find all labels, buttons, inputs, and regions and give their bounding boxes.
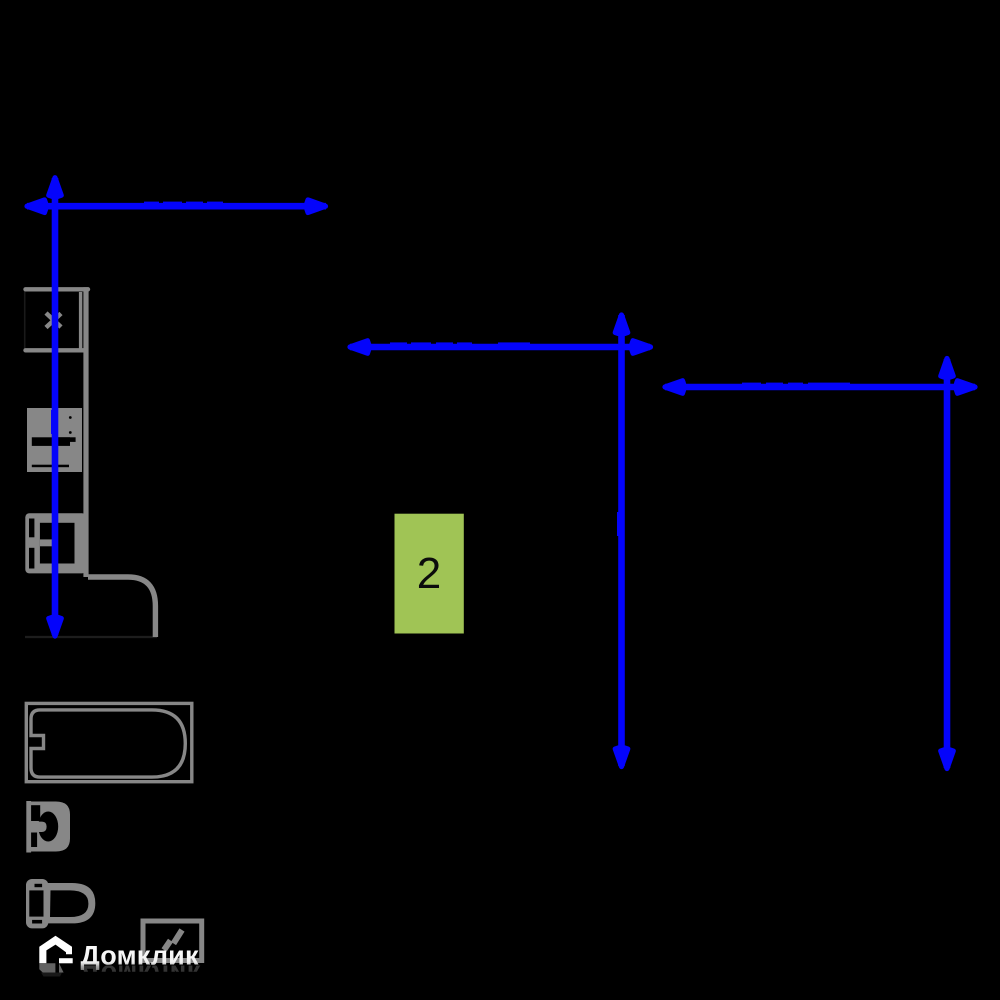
main right wall <box>83 287 88 577</box>
svg-text:2: 2 <box>417 549 441 598</box>
faint wall line bottom of kitchen <box>25 636 157 638</box>
toilet <box>26 879 95 928</box>
room number plate <box>395 514 464 634</box>
stove block <box>27 408 82 472</box>
dimension arrow V1 (left vertical) <box>49 178 61 636</box>
pinwheel valve symbol <box>46 313 61 328</box>
dimension arrow V2 (middle vertical) <box>615 315 627 767</box>
electrical panel <box>143 921 202 961</box>
kitchen upper cabinet top line <box>26 287 89 291</box>
kitchen inner wall line <box>79 292 82 349</box>
counter edge with curve <box>88 577 155 637</box>
dimension arrow H1 (top-left horizontal) <box>27 200 326 212</box>
washing machine cabinet <box>25 513 86 573</box>
dimension arrow H2 (middle horizontal) <box>350 341 651 353</box>
kitchen upper cabinet bottom line <box>26 348 85 352</box>
wash basin <box>26 801 70 853</box>
faint wall line left of upper cabinet <box>24 291 26 350</box>
bathtub <box>26 703 192 781</box>
Domclick logo house <box>39 936 72 977</box>
dimension arrow V3 (right vertical) <box>941 359 953 769</box>
dimension arrow H3 (top-right horizontal) <box>665 381 975 393</box>
